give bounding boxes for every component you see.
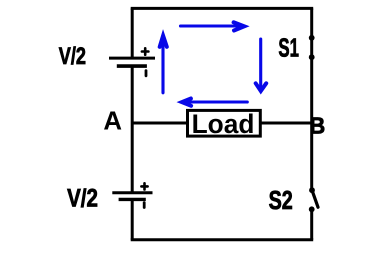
svg-text:A: A: [103, 107, 122, 135]
V2 plus mark: [141, 183, 147, 189]
svg-text:V/2: V/2: [67, 184, 98, 212]
voltage source V1 bottom plate (short, negative): [117, 64, 147, 68]
V2 minus mark: [143, 203, 146, 208]
switch S1 lower terminal dot: [309, 54, 315, 60]
wire top (left corner to right corner): [131, 7, 314, 10]
voltage source V2 bottom plate (short, negative): [119, 198, 146, 201]
wire right lower (S2 lower terminal to bottom corner): [310, 209, 313, 239]
switch S2 blade (open): [312, 190, 318, 207]
wire middle right (Load box to node B): [260, 122, 311, 125]
voltage source V2 top plate (long, positive): [112, 191, 152, 194]
current arrow left (middle, into load): [182, 99, 247, 106]
wire bottom (left corner to right corner): [131, 238, 314, 241]
wire right mid (node B down to S2 upper terminal): [310, 123, 313, 190]
voltage source V1 top plate (long, positive): [109, 57, 155, 60]
current arrow up (left side of loop): [160, 36, 167, 93]
current arrow down (right side of loop): [256, 39, 267, 91]
svg-text:Load: Load: [192, 109, 255, 139]
V1 minus mark: [145, 71, 148, 76]
svg-text:B: B: [310, 113, 326, 139]
svg-text:S1: S1: [278, 32, 299, 62]
svg-text:S2: S2: [269, 185, 293, 215]
V1 plus mark: [142, 48, 149, 54]
load box: [188, 110, 261, 136]
switch S1 upper terminal dot: [309, 35, 315, 41]
current arrow right (top of loop): [181, 22, 245, 30]
wire middle left (node A to Load box): [132, 122, 187, 125]
svg-text:V/2: V/2: [59, 43, 86, 70]
switch S2 upper terminal dot: [309, 187, 315, 193]
wire left upper (top corner down to V1 top plate): [131, 8, 134, 58]
switch S2 lower terminal dot: [309, 206, 315, 212]
wire left lower (V2 bottom plate to bottom corner): [131, 199, 134, 239]
wire right upper (top corner through S1 down to node B): [310, 8, 313, 123]
wire left middle (V1 bottom plate to V2 top plate, through node A): [131, 66, 134, 193]
